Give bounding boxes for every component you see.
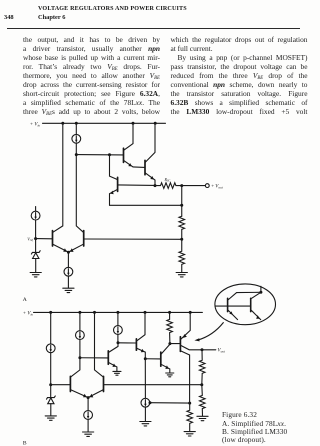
- wire bubble dot stub: [260, 286, 262, 292]
- label A: [23, 297, 27, 303]
- transistor QPb (bubble npn): [251, 292, 261, 319]
- resistor R6 (divider bottom, B): [200, 385, 206, 416]
- wire I8 tap to R4 node: [150, 402, 190, 404]
- junction R4 top node: [188, 402, 191, 405]
- transistor Q6 (diff pair right): [69, 155, 182, 252]
- junction output node (B): [201, 348, 204, 351]
- junction feedback node (B): [200, 383, 203, 386]
- ground (Q11 emitter): [113, 371, 121, 375]
- junction rail-Q2 collector: [132, 122, 135, 125]
- junction rail-QP emitter: [189, 311, 192, 314]
- junction Q4 emitter node: [180, 204, 183, 207]
- transistor Q4 (current limit): [110, 155, 182, 206]
- junction rail-I6: [116, 311, 119, 314]
- junction Q3 emitter / Rsc: [154, 184, 157, 187]
- transistor Q13 (driver): [161, 344, 170, 373]
- ground (diff tail B): [83, 432, 94, 436]
- junction diff pair emitters (B): [87, 396, 90, 399]
- transistor QP (pnp pass, composite): [180, 312, 202, 403]
- transistor Q5 (diff pair left): [53, 123, 69, 252]
- junction output node (A): [180, 184, 183, 187]
- junction feedback node (A): [180, 238, 183, 241]
- svg-text:+ Vin: + Vin: [30, 123, 41, 128]
- detail bubble (composite pnp): [215, 284, 276, 325]
- transistor Q3 (Darlington output): [145, 123, 155, 185]
- wire +Vin rail (B): [34, 311, 203, 313]
- current source I3 (diff tail, A): [64, 252, 73, 288]
- wire bubble base line: [215, 305, 250, 307]
- junction rail-Q10 collector: [93, 311, 96, 314]
- ground (diff tail A): [63, 288, 74, 292]
- resistor Rsc: [155, 183, 182, 189]
- svg-text:+ Vin: + Vin: [23, 312, 34, 317]
- wire Vref to Q5 base: [36, 238, 53, 240]
- current source I7 (diff tail, B): [84, 398, 93, 432]
- svg-text:Vref: Vref: [27, 236, 34, 242]
- node Vref junction (B): [49, 383, 52, 386]
- junction I2 output node: [75, 153, 78, 156]
- node +Vin (A) label: [30, 123, 41, 128]
- wire Vref to Q9 base: [51, 384, 70, 386]
- ground (divider A): [176, 273, 187, 277]
- transistor Q12 (follower): [136, 312, 145, 358]
- transistor Q11 (gain stage): [108, 343, 118, 371]
- resistor R1 (divider top, A): [179, 216, 185, 239]
- current source I8 (pulldown): [141, 359, 150, 422]
- resistor R4: [187, 403, 193, 431]
- junction rail-Q3 collector: [154, 122, 157, 125]
- node +Vin (B) label: [23, 312, 34, 317]
- resistor R5 (divider top, B): [199, 350, 205, 385]
- wire Q12 emitter to Q13 base: [145, 358, 160, 360]
- ground (R4): [184, 432, 195, 436]
- terminal +Vout (A): [182, 184, 224, 190]
- junction QP base node: [168, 342, 171, 345]
- ground (zener D2): [45, 416, 56, 420]
- junction rail-I4: [49, 311, 52, 314]
- wire output to divider (A): [181, 186, 183, 217]
- junction Q9 collector node: [78, 356, 81, 359]
- junction rail-R3: [168, 311, 171, 314]
- current source I5 (Q11 bias): [76, 312, 85, 357]
- terminal Vout (B): [202, 349, 226, 354]
- current source I2 (diff load): [72, 123, 81, 154]
- junction bubble collector dot: [259, 291, 262, 294]
- zener diode D2: [47, 385, 56, 416]
- wire I2 node to Q2 base: [76, 154, 123, 156]
- junction diff pair emitters (A): [67, 251, 70, 254]
- transistor QPa (bubble pnp): [228, 292, 261, 319]
- svg-text:+ Vout: + Vout: [211, 185, 224, 190]
- svg-text:RSC: RSC: [164, 177, 171, 183]
- current source I4 (reference bias, B): [46, 312, 55, 384]
- wire I6 node to Q12 base: [118, 342, 136, 344]
- junction Q4 collector tap: [108, 153, 111, 156]
- ground (divider B): [197, 416, 208, 420]
- node Vref label: [27, 236, 34, 242]
- current source I1 (reference bias, hanging): [31, 207, 40, 239]
- zener diode D1: [31, 239, 40, 273]
- wire +Vin rail (A): [43, 122, 166, 124]
- leader arrow bubble to QP: [194, 323, 223, 342]
- resistor R3 (base pullup): [167, 312, 173, 343]
- junction rail-I5: [78, 311, 81, 314]
- transistor Q2 (Darlington driver 1): [124, 123, 145, 167]
- ground (zener D1): [30, 273, 41, 277]
- ground (I8): [140, 422, 151, 426]
- node Vref junction: [34, 237, 37, 240]
- label B: [23, 440, 27, 446]
- junction rail-left load: [61, 122, 64, 125]
- junction Q12 emitter node: [144, 357, 147, 360]
- transistor Q9 (diff pair left, B): [70, 358, 88, 398]
- svg-text:Vout: Vout: [218, 349, 226, 354]
- junction rail-Q12 collector: [144, 311, 147, 314]
- transistor Q10 (diff pair right, B): [88, 312, 202, 397]
- junction Q12 base node: [117, 341, 120, 344]
- resistor R2 (divider bottom, A): [179, 239, 185, 272]
- svg-text:B: B: [23, 440, 27, 446]
- wire Q9 collector node to Q11 base: [80, 357, 108, 359]
- svg-text:A: A: [23, 297, 27, 303]
- wire base node to QP: [170, 343, 180, 345]
- resistor Rsc label: [164, 177, 171, 183]
- junction I8 side tap: [149, 401, 152, 404]
- current source I6 (Q12 bias): [114, 312, 123, 342]
- ground (Q13 emitter): [166, 373, 174, 377]
- junction rail-current source I2: [75, 122, 78, 125]
